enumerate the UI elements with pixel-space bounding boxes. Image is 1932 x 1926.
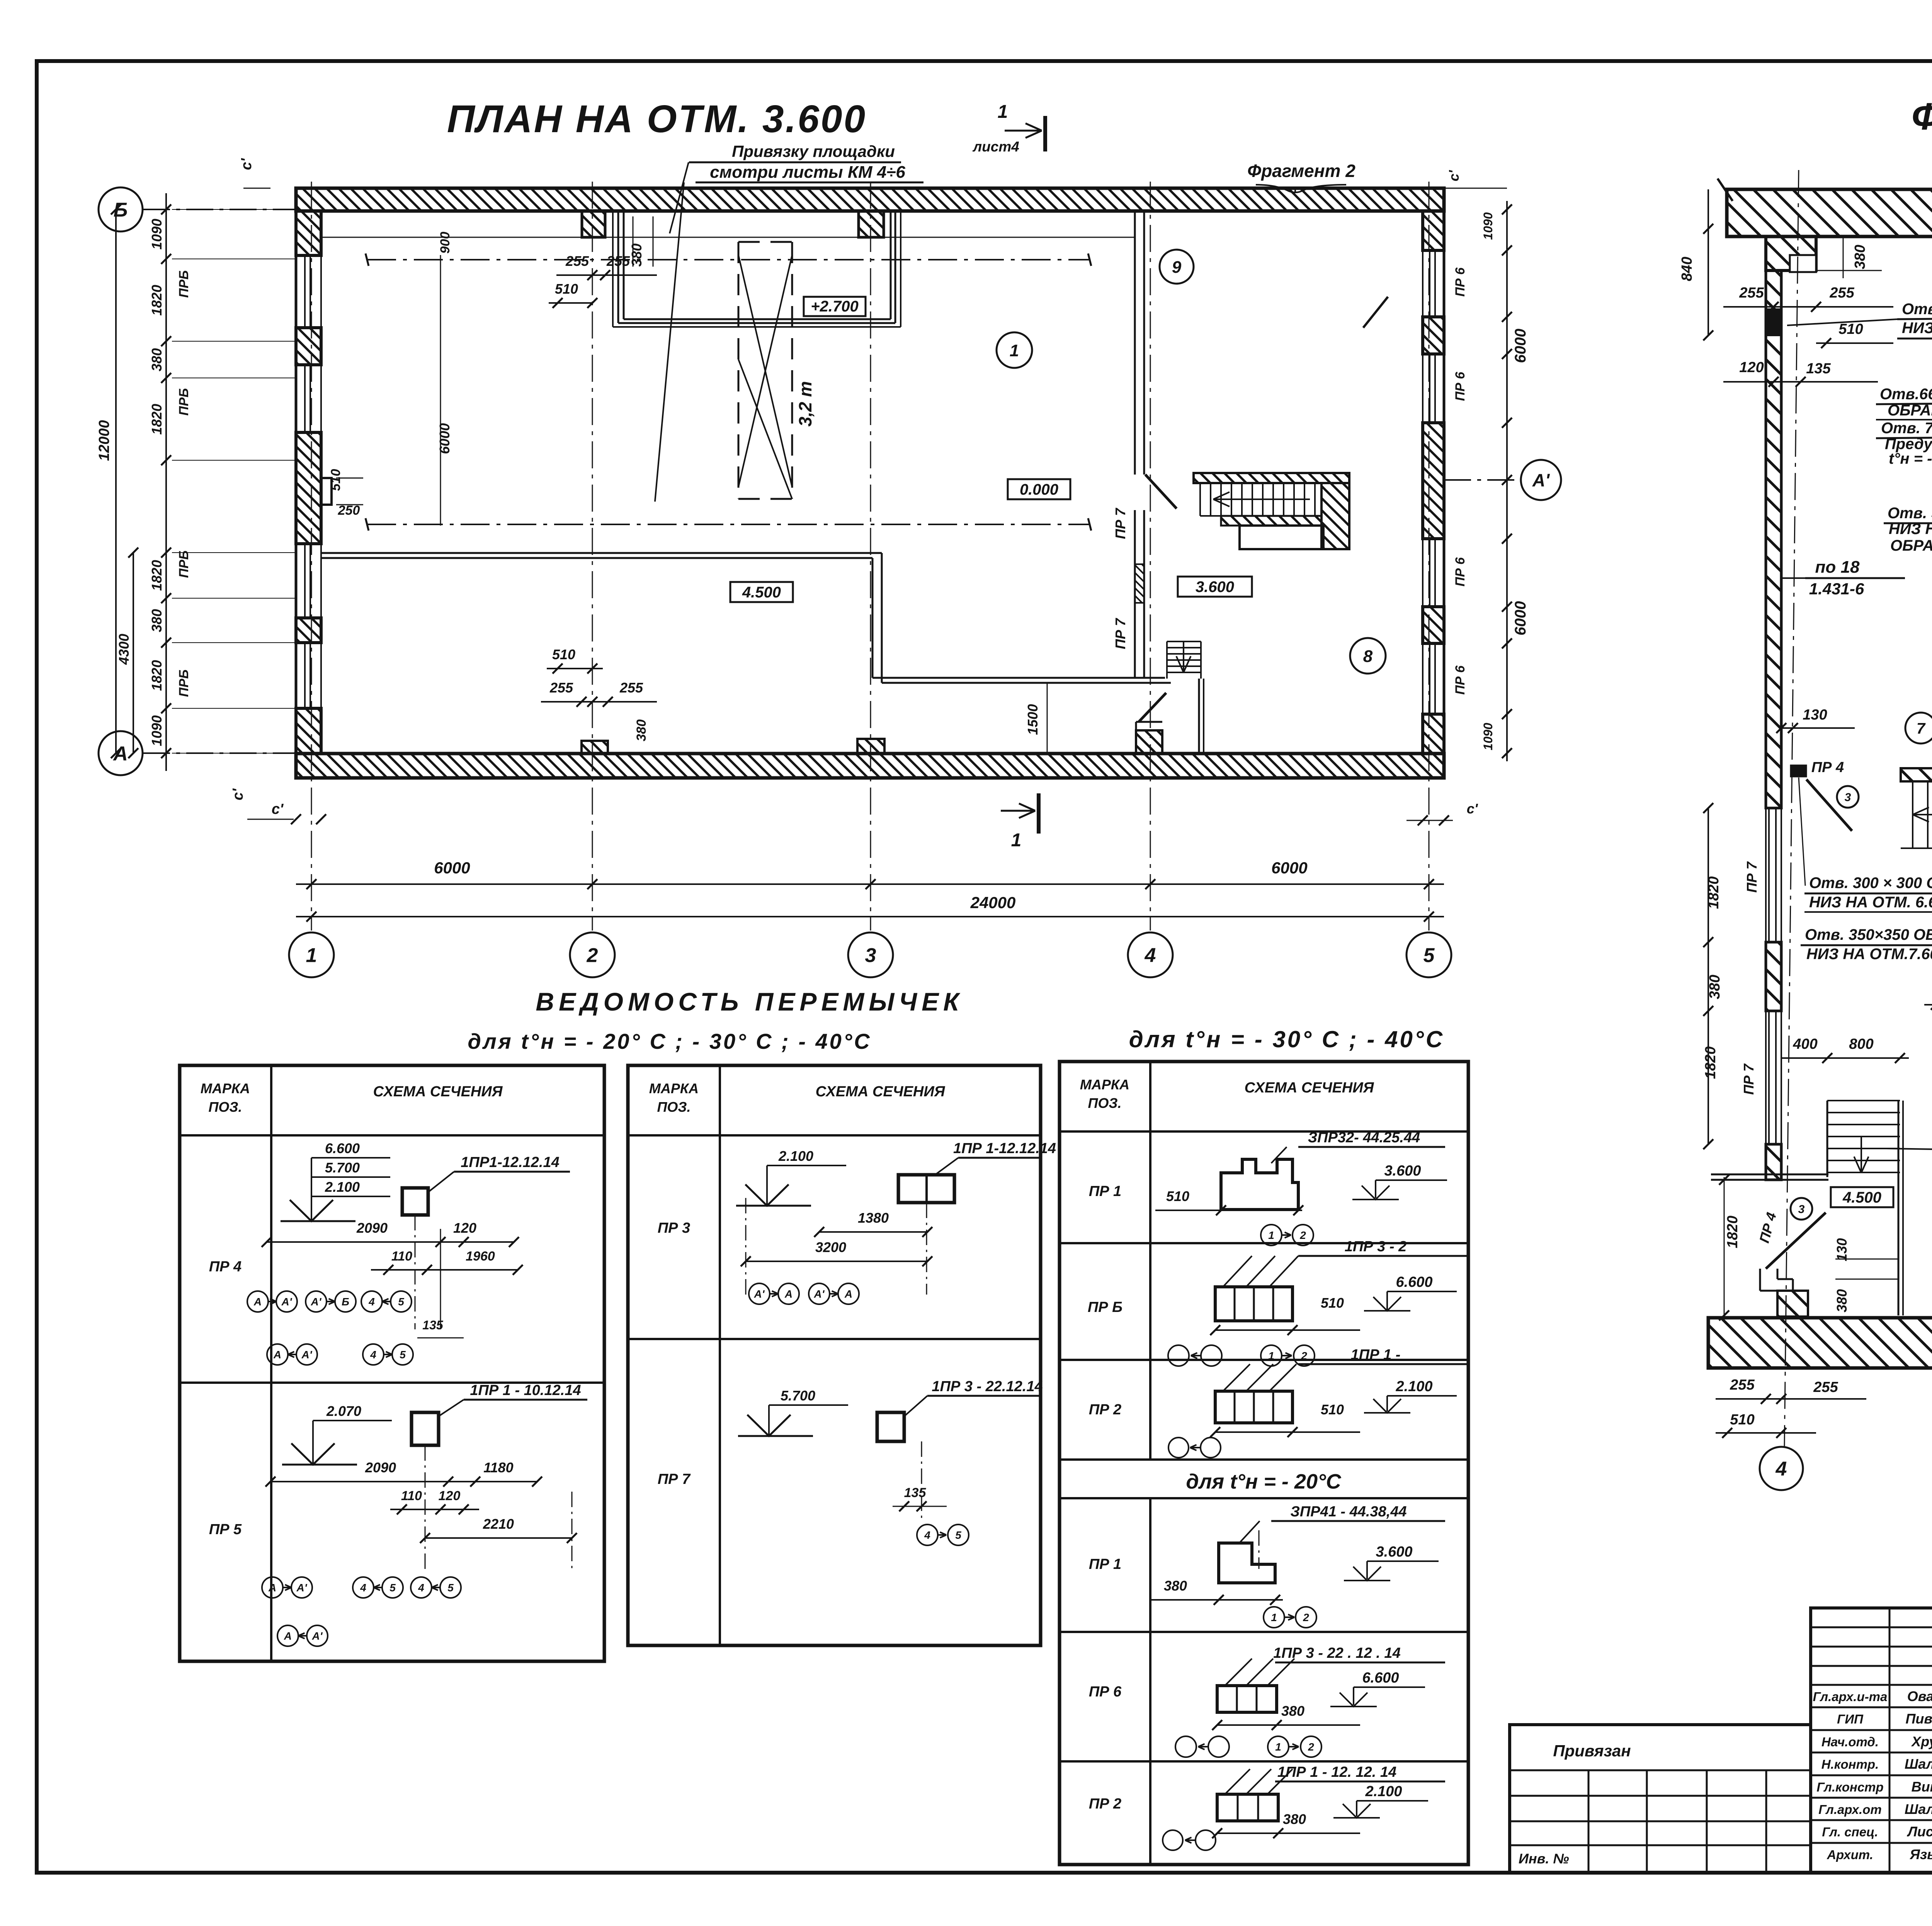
svg-text:1820: 1820 (1725, 1216, 1741, 1249)
svg-text:А': А' (311, 1296, 322, 1308)
svg-text:ПОЗ.: ПОЗ. (208, 1099, 242, 1115)
table 1 ПР4 circles row2 (267, 1344, 288, 1365)
svg-text:ВЕДОМОСТЬ ПЕРЕМЫЧЕК: ВЕДОМОСТЬ ПЕРЕМЫЧЕК (536, 987, 963, 1016)
svg-text:Язычьян: Язычьян (1910, 1846, 1932, 1862)
svg-text:4: 4 (370, 1349, 376, 1361)
svg-text:6000: 6000 (1271, 859, 1307, 877)
fragment small stair (1827, 1100, 1900, 1101)
fragment bottom wall (1708, 1318, 1932, 1368)
svg-text:1.431-6: 1.431-6 (1809, 580, 1864, 598)
svg-text:6000: 6000 (437, 423, 452, 454)
fragment door jamb bottom-left (1777, 1291, 1808, 1317)
svg-text:4.500: 4.500 (1842, 1189, 1881, 1206)
plan dim 4300 (133, 553, 134, 753)
plan right wall pier 2 (1423, 317, 1444, 354)
svg-text:2090: 2090 (356, 1220, 388, 1236)
svg-text:120: 120 (453, 1220, 476, 1236)
plan stair top band (1194, 473, 1349, 483)
svg-text:НИЗ НА ОТМ.7.600: НИЗ НА ОТМ.7.600 (1806, 946, 1932, 963)
svg-text:1820: 1820 (149, 285, 165, 316)
svg-text:380: 380 (149, 609, 165, 632)
svg-text:ПОЗ.: ПОЗ. (1088, 1095, 1121, 1111)
svg-text:6000: 6000 (1512, 601, 1529, 636)
plan crane rail axis top (367, 259, 1090, 260)
привязан block (1510, 1725, 1811, 1872)
plan left wall window 4 (320, 643, 322, 708)
svg-text:1180: 1180 (483, 1460, 513, 1475)
svg-text:255: 255 (565, 253, 589, 269)
svg-text:135: 135 (422, 1318, 444, 1332)
plan section mark top (1043, 116, 1047, 151)
svg-text:255: 255 (1829, 285, 1854, 301)
svg-text:5: 5 (447, 1582, 454, 1594)
fragment left wall lintel black ПР (1766, 309, 1781, 335)
svg-text:1090: 1090 (149, 219, 165, 250)
fragment room tag 7 (1905, 713, 1932, 744)
svg-text:ПР 7: ПР 7 (1112, 507, 1128, 539)
svg-text:ПР 7: ПР 7 (1741, 1063, 1757, 1095)
svg-text:Фрагмент 2: Фрагмент 2 (1247, 161, 1355, 181)
svg-text:510: 510 (552, 647, 575, 662)
svg-text:5: 5 (955, 1529, 961, 1541)
plan left wall window 1 (320, 255, 322, 328)
svg-text:А': А' (312, 1630, 323, 1642)
plan right wall pier 4 (1423, 607, 1444, 643)
svg-text:1: 1 (998, 102, 1008, 122)
svg-text:3,2 т: 3,2 т (795, 381, 815, 427)
svg-text:5.700: 5.700 (325, 1160, 360, 1176)
svg-text:Гл.арх.от: Гл.арх.от (1818, 1802, 1881, 1817)
svg-text:Б: Б (114, 199, 128, 221)
svg-text:2: 2 (1308, 1741, 1314, 1753)
fragment left wall upper strip (1766, 271, 1781, 808)
svg-text:1820: 1820 (149, 404, 165, 435)
svg-text:ПР 2: ПР 2 (1089, 1402, 1121, 1418)
svg-text:380: 380 (1852, 245, 1868, 269)
svg-text:ПР Б: ПР Б (1088, 1299, 1122, 1315)
svg-text:Гл. спец.: Гл. спец. (1822, 1825, 1878, 1839)
plan axis А circle (99, 731, 143, 775)
plan left wall pier 5 (296, 708, 321, 754)
svg-text:1ПР1-12.12.14: 1ПР1-12.12.14 (461, 1154, 560, 1171)
table 2 ПР7 circles (917, 1524, 938, 1545)
svg-text:2.070: 2.070 (326, 1403, 361, 1419)
plan right wall window 3 (1422, 539, 1423, 607)
svg-text:Привязку площадки: Привязку площадки (732, 142, 895, 160)
svg-text:4: 4 (1145, 944, 1156, 967)
svg-text:1090: 1090 (1481, 212, 1495, 240)
svg-text:6.600: 6.600 (1362, 1670, 1399, 1686)
svg-text:3: 3 (865, 944, 876, 967)
svg-text:3.600: 3.600 (1196, 578, 1234, 595)
svg-text:А': А' (281, 1296, 293, 1308)
svg-text:1: 1 (306, 944, 317, 967)
svg-text:Отв. 350×350 ОВ: Отв. 350×350 ОВ (1805, 926, 1932, 943)
plan left wall window 3 (320, 544, 322, 618)
svg-text:СХЕМА СЕЧЕНИЯ: СХЕМА СЕЧЕНИЯ (816, 1084, 946, 1100)
plan stair treads (1199, 483, 1201, 516)
svg-text:А: А (284, 1630, 292, 1642)
svg-text:900: 900 (438, 232, 452, 254)
svg-text:+2.700: +2.700 (811, 298, 858, 315)
svg-text:А: А (253, 1296, 262, 1308)
plan left wall middle pier bump 510 (321, 478, 332, 505)
svg-text:с': с' (230, 788, 246, 800)
svg-text:ПОЗ.: ПОЗ. (657, 1099, 690, 1115)
svg-text:2.100: 2.100 (325, 1179, 360, 1195)
svg-text:А: А (273, 1349, 281, 1361)
svg-text:255: 255 (1813, 1379, 1838, 1395)
plan room tag 1 (997, 332, 1032, 368)
table 1 ПР4 axis circles row (247, 1291, 268, 1312)
svg-text:380: 380 (629, 243, 645, 267)
svg-text:А': А' (296, 1582, 308, 1594)
plan interior wall horizontal 4.500 room (321, 552, 882, 554)
fragment door leaf bottom-left (1766, 1213, 1826, 1269)
svg-text:ПР 7: ПР 7 (1744, 861, 1760, 893)
plan crane hatch dashed box (738, 242, 740, 499)
table 1 frame (180, 1065, 604, 1661)
plan left wall pier 4 (296, 618, 321, 643)
svg-text:для t°н = - 20° С ; - 30° С: для t°н = - 20° С ; - 30° С ; - 40°С (468, 1029, 871, 1053)
svg-text:ФРАГМЕНТ 2: ФРАГМЕНТ 2 (1912, 95, 1932, 138)
plan left witness lines (172, 209, 296, 210)
svg-text:Б: Б (342, 1296, 349, 1308)
svg-text:130: 130 (1834, 1238, 1850, 1261)
svg-text:ПРБ: ПРБ (177, 270, 191, 298)
svg-text:5.700: 5.700 (781, 1388, 815, 1404)
svg-text:ПРБ: ПРБ (177, 669, 191, 697)
svg-text:А': А' (301, 1349, 313, 1361)
plan platform +2.700 walls (617, 211, 619, 323)
svg-text:А: А (268, 1582, 276, 1594)
svg-text:6000: 6000 (434, 859, 470, 877)
svg-text:3.600: 3.600 (1376, 1544, 1412, 1560)
svg-text:800: 800 (1849, 1036, 1873, 1052)
svg-text:ПР 4: ПР 4 (209, 1259, 241, 1275)
fragment stair treads (1912, 781, 1913, 848)
plan stair right wall (1321, 483, 1349, 549)
table 3 frame (1060, 1062, 1468, 1865)
fragment ПР4 lintel black + door (1791, 765, 1806, 777)
plan bottom axis circles 1-5 (311, 182, 312, 931)
fragment top wall (1727, 189, 1932, 236)
svg-text:1ПР 3 - 2: 1ПР 3 - 2 (1345, 1239, 1406, 1255)
svg-text:А: А (844, 1288, 852, 1300)
svg-text:2: 2 (1299, 1229, 1306, 1241)
plan door leaf at ПР7 wall top (1145, 475, 1177, 509)
svg-text:ГИП: ГИП (1837, 1712, 1864, 1726)
plan column notch axis2 (582, 211, 605, 237)
plan right wall window 2 (1422, 354, 1423, 423)
plan wall below secondary stair (1198, 679, 1200, 754)
svg-text:ПРБ: ПРБ (177, 388, 191, 415)
plan left wall pier 2 (296, 328, 321, 365)
svg-text:ПР 2: ПР 2 (1089, 1796, 1121, 1812)
plan level box 0.000 (1008, 479, 1070, 499)
svg-text:510: 510 (555, 281, 578, 297)
plan right wall pier 1 (1423, 211, 1444, 250)
svg-text:А': А' (1532, 470, 1550, 490)
svg-text:1ПР 1 -: 1ПР 1 - (1351, 1347, 1401, 1363)
svg-text:6.600: 6.600 (1396, 1274, 1432, 1290)
plan bottom column axis3 (857, 739, 884, 754)
svg-text:НИЗ НА ОТМ. 6.650: НИЗ НА ОТМ. 6.650 (1809, 894, 1932, 911)
svg-text:2.100: 2.100 (1365, 1783, 1402, 1800)
plan right wall pier 3 (1423, 423, 1444, 539)
svg-text:135: 135 (1806, 361, 1831, 377)
svg-text:255: 255 (606, 253, 630, 269)
svg-text:1820: 1820 (149, 560, 165, 591)
table 1 ПР4 block (402, 1188, 428, 1215)
fragment stair arrow (1913, 814, 1932, 815)
plan level box 3.600 (1178, 577, 1252, 597)
svg-text:Привязан: Привязан (1553, 1742, 1631, 1760)
plan right wall window 4 (1422, 643, 1423, 714)
svg-text:Инв. №: Инв. № (1519, 1851, 1569, 1866)
svg-text:Винклер: Винклер (1912, 1779, 1932, 1795)
plan room tag 8 (1350, 638, 1386, 674)
fragment left wall window 1 (1765, 808, 1767, 942)
svg-text:1380: 1380 (858, 1210, 889, 1226)
svg-text:Н.контр.: Н.контр. (1821, 1757, 1879, 1771)
svg-text:9: 9 (1172, 258, 1182, 277)
svg-text:7: 7 (1917, 720, 1926, 737)
svg-text:ПР 7: ПР 7 (1112, 618, 1128, 649)
svg-text:5: 5 (400, 1349, 406, 1361)
svg-text:А': А' (754, 1288, 765, 1300)
svg-text:Пивторак: Пивторак (1906, 1711, 1932, 1727)
svg-text:380: 380 (1281, 1703, 1304, 1719)
svg-text:t°н = - 40°С: t°н = - 40°С (1889, 450, 1932, 467)
plan crane rail axis bottom (367, 524, 1090, 525)
svg-text:ПР 6: ПР 6 (1453, 371, 1468, 401)
svg-text:3: 3 (1845, 791, 1851, 804)
svg-text:лист4: лист4 (972, 139, 1019, 155)
plan dim 12000 (115, 209, 117, 753)
svg-text:110: 110 (401, 1489, 422, 1503)
svg-text:Лисичкин: Лисичкин (1906, 1824, 1932, 1839)
plan bottom dim line 24000 (296, 916, 1444, 917)
svg-text:510: 510 (1321, 1295, 1344, 1311)
svg-text:255: 255 (619, 680, 643, 696)
svg-text:380: 380 (149, 348, 165, 371)
svg-text:1820: 1820 (149, 660, 165, 691)
svg-text:2: 2 (587, 944, 598, 967)
plan door at room 9 (1363, 297, 1388, 328)
fragment level box 4.500 (1831, 1187, 1893, 1207)
fragment door circle 3 (1791, 1198, 1812, 1220)
svg-text:Гл.арх.и-та: Гл.арх.и-та (1813, 1690, 1888, 1704)
plan level box +2.700 (804, 297, 866, 316)
plan secondary stair (1167, 641, 1201, 642)
svg-text:1ПР 1-12.12.14: 1ПР 1-12.12.14 (953, 1140, 1056, 1157)
svg-text:НИЗ НА ОТМ. 6,450: НИЗ НА ОТМ. 6,450 (1902, 320, 1932, 337)
svg-text:ПР 6: ПР 6 (1453, 557, 1468, 587)
plan section mark bottom (1037, 793, 1041, 834)
plan crane girder line (321, 237, 1135, 238)
table 1 ПР5 circles (262, 1577, 283, 1598)
svg-text:СХЕМА СЕЧЕНИЯ: СХЕМА СЕЧЕНИЯ (1245, 1080, 1374, 1096)
svg-text:Отв. 700×700 ОВ: Отв. 700×700 ОВ (1902, 301, 1932, 318)
svg-text:Шаломеев: Шаломеев (1905, 1756, 1932, 1772)
svg-text:8: 8 (1363, 647, 1373, 666)
svg-text:ПР 3: ПР 3 (658, 1220, 690, 1236)
svg-text:ПР 1: ПР 1 (1089, 1556, 1121, 1572)
plan left wall pier 1 (296, 211, 321, 255)
svg-text:Нач.отд.: Нач.отд. (1821, 1735, 1879, 1749)
fragment stair top band (1901, 768, 1932, 781)
svg-text:5: 5 (1423, 944, 1435, 967)
svg-text:СХЕМА СЕЧЕНИЯ: СХЕМА СЕЧЕНИЯ (373, 1084, 503, 1100)
fragment left wall lower pier (1766, 1144, 1781, 1180)
plan right wall window 1 (1422, 250, 1423, 317)
fragment lower floor edge wall (1711, 1174, 1828, 1176)
svg-text:380: 380 (1707, 975, 1723, 999)
svg-text:1: 1 (1268, 1229, 1274, 1241)
svg-text:3.600: 3.600 (1384, 1163, 1421, 1179)
svg-text:380: 380 (1834, 1289, 1850, 1312)
svg-text:с': с' (1467, 801, 1478, 817)
svg-text:2090: 2090 (365, 1460, 396, 1475)
plan left wall window 2 (320, 365, 322, 432)
table 2 frame (628, 1065, 1041, 1645)
svg-text:ОБРАМИТЬ РМ 2: ОБРАМИТЬ РМ 2 (1890, 537, 1932, 554)
svg-text:120: 120 (1739, 359, 1764, 376)
plan left wall outer line (295, 188, 298, 778)
signature table (1811, 1608, 1932, 1872)
plan bottom column axis2 (582, 741, 608, 754)
plan stair lower band and void (1221, 516, 1321, 526)
svg-text:Хрупало: Хрупало (1911, 1734, 1932, 1749)
svg-text:255: 255 (1730, 1377, 1755, 1393)
svg-text:Гл.констр: Гл.констр (1816, 1780, 1883, 1794)
svg-text:1: 1 (1271, 1611, 1277, 1623)
svg-text:4: 4 (360, 1582, 366, 1594)
svg-text:4: 4 (418, 1582, 424, 1594)
svg-text:с': с' (1446, 170, 1462, 181)
svg-text:1090: 1090 (149, 715, 165, 746)
plan left dim chain (165, 193, 167, 771)
fragment left wall top thick part (1766, 236, 1816, 271)
svg-text:ПЛАН НА ОТМ. 3.600: ПЛАН НА ОТМ. 3.600 (447, 97, 867, 141)
plan bottom dim line 6000s (296, 883, 1444, 885)
svg-text:110: 110 (391, 1249, 412, 1264)
plan room tag 9 (1160, 250, 1194, 284)
svg-text:6000: 6000 (1512, 329, 1529, 363)
svg-text:5: 5 (389, 1582, 396, 1594)
table 1 ПР5 block (412, 1412, 439, 1445)
svg-text:2.100: 2.100 (778, 1148, 813, 1164)
svg-text:135: 135 (904, 1485, 927, 1500)
svg-text:2: 2 (1303, 1611, 1309, 1623)
plan left wall pier 3 (296, 432, 321, 544)
svg-text:510: 510 (1730, 1412, 1754, 1428)
svg-text:4300: 4300 (116, 634, 132, 665)
svg-text:1ПР 3 - 22 . 12 . 14: 1ПР 3 - 22 . 12 . 14 (1273, 1645, 1400, 1661)
svg-text:А: А (784, 1288, 793, 1300)
svg-text:Ованесян: Ованесян (1907, 1688, 1932, 1704)
svg-text:ПР 7: ПР 7 (658, 1471, 691, 1487)
plan door leaf at room 3.600 (1139, 693, 1166, 722)
plan stair arrow (1213, 499, 1310, 500)
svg-text:ЗПР32- 44.25.44: ЗПР32- 44.25.44 (1308, 1130, 1420, 1146)
svg-text:1: 1 (1268, 1350, 1274, 1362)
svg-text:1ПР 3 - 22.12.14: 1ПР 3 - 22.12.14 (932, 1378, 1043, 1395)
svg-text:Архит.: Архит. (1827, 1848, 1873, 1862)
svg-text:ПР 4: ПР 4 (1811, 759, 1844, 776)
svg-text:ПР 1: ПР 1 (1089, 1183, 1121, 1199)
plan interior wall vertical room 3.600 left (872, 558, 874, 678)
plan right dim chain (1506, 201, 1508, 761)
plan level box 4.500 (730, 582, 793, 602)
table 2 ПР7 block (877, 1412, 904, 1441)
svg-text:24000: 24000 (970, 893, 1016, 912)
svg-text:2210: 2210 (483, 1516, 514, 1532)
svg-text:4.500: 4.500 (742, 584, 781, 601)
svg-text:510: 510 (1321, 1402, 1344, 1417)
plan right wall pier 5 (1423, 714, 1444, 754)
svg-text:1090: 1090 (1481, 723, 1495, 750)
svg-text:ЗПР41 - 44.38,44: ЗПР41 - 44.38,44 (1290, 1504, 1406, 1520)
svg-text:МАРКА: МАРКА (201, 1080, 250, 1096)
svg-text:ПР 5: ПР 5 (209, 1521, 242, 1538)
svg-text:1: 1 (1275, 1741, 1281, 1753)
svg-text:255: 255 (549, 680, 573, 696)
svg-text:1960: 1960 (466, 1249, 495, 1264)
fragment left wall pier (1766, 942, 1781, 1011)
svg-text:ПР 6: ПР 6 (1089, 1684, 1122, 1700)
svg-text:ПР 6: ПР 6 (1453, 665, 1468, 695)
fragment axis 4 line and circle (1784, 170, 1799, 1447)
svg-text:3200: 3200 (815, 1239, 846, 1255)
svg-text:1: 1 (1010, 341, 1019, 360)
svg-text:840: 840 (1679, 257, 1695, 281)
svg-text:НИЗ НА ОТМ. 3.900: НИЗ НА ОТМ. 3.900 (1889, 521, 1932, 538)
svg-text:1500: 1500 (1025, 704, 1041, 735)
svg-text:5: 5 (398, 1296, 404, 1308)
svg-text:Шаломеев: Шаломеев (1905, 1801, 1932, 1817)
svg-text:смотри листы КМ 4÷6: смотри листы КМ 4÷6 (710, 163, 905, 182)
svg-text:2.100: 2.100 (1395, 1378, 1432, 1395)
svg-text:4: 4 (368, 1296, 375, 1308)
svg-text:1ПР 1 - 12. 12. 14: 1ПР 1 - 12. 12. 14 (1277, 1764, 1396, 1780)
svg-text:510: 510 (328, 469, 343, 491)
svg-text:1: 1 (1011, 830, 1022, 851)
svg-text:для t°н = - 20°С: для t°н = - 20°С (1186, 1470, 1341, 1493)
svg-text:1ПР 1 - 10.12.14: 1ПР 1 - 10.12.14 (470, 1382, 581, 1399)
plan annotation leader lines (670, 162, 689, 233)
plan top wall (296, 188, 1444, 211)
svg-text:255: 255 (1739, 285, 1764, 301)
svg-text:2: 2 (1301, 1350, 1307, 1362)
svg-text:с': с' (238, 158, 255, 170)
plan axis Б circle (99, 187, 143, 231)
table 2 ПР3 circles (749, 1283, 770, 1304)
svg-text:380: 380 (1283, 1811, 1306, 1827)
plan interior wall horizontal room 3.600 bottom (872, 677, 1165, 679)
svg-text:380: 380 (634, 720, 649, 742)
svg-text:4: 4 (924, 1529, 930, 1541)
svg-text:Отв. 505×1250 ОВ: Отв. 505×1250 ОВ (1888, 505, 1932, 522)
plan column notch axis3 (859, 211, 884, 237)
svg-text:А': А' (814, 1288, 825, 1300)
svg-text:12000: 12000 (96, 420, 112, 461)
svg-text:Отв.660×1050 ОВ НИЗ НА ОТМ 3 7: Отв.660×1050 ОВ НИЗ НА ОТМ 3 720 (1880, 386, 1932, 403)
svg-text:ПР 6: ПР 6 (1453, 267, 1468, 297)
svg-text:4: 4 (1776, 1458, 1787, 1480)
svg-text:250: 250 (338, 503, 360, 518)
